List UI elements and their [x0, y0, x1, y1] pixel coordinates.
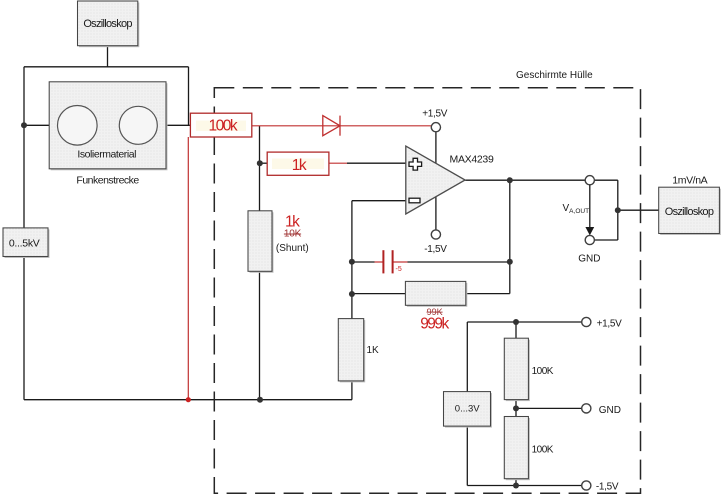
svg-text:Funkenstrecke: Funkenstrecke — [76, 174, 139, 186]
svg-text:GND: GND — [599, 405, 621, 416]
svg-text:10K: 10K — [284, 229, 302, 240]
svg-text:(Shunt): (Shunt) — [276, 243, 309, 254]
svg-text:Oszilloskop: Oszilloskop — [83, 18, 132, 30]
svg-text:+1,5V: +1,5V — [597, 319, 623, 330]
svg-text:100K: 100K — [532, 445, 554, 456]
svg-text:1mV/nA: 1mV/nA — [672, 175, 707, 187]
svg-text:1k: 1k — [292, 157, 307, 174]
svg-text:999k: 999k — [420, 315, 449, 332]
svg-text:-1,5V: -1,5V — [424, 244, 447, 255]
svg-text:Oszilloskop: Oszilloskop — [665, 206, 714, 218]
svg-text:0...3V: 0...3V — [455, 404, 480, 415]
svg-text:+1,5V: +1,5V — [422, 109, 448, 120]
svg-text:1K: 1K — [367, 345, 380, 356]
svg-text:-5: -5 — [396, 266, 402, 273]
svg-text:MAX4239: MAX4239 — [450, 153, 494, 165]
svg-text:100K: 100K — [532, 366, 554, 377]
svg-text:0...5kV: 0...5kV — [9, 238, 40, 250]
svg-text:-1,5V: -1,5V — [596, 482, 619, 493]
svg-text:Isoliermaterial: Isoliermaterial — [77, 149, 136, 161]
svg-text:Geschirmte Hülle: Geschirmte Hülle — [516, 70, 593, 81]
svg-text:GND: GND — [578, 254, 600, 265]
svg-text:100k: 100k — [208, 117, 237, 134]
